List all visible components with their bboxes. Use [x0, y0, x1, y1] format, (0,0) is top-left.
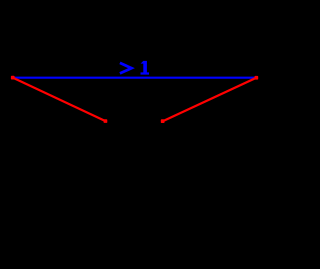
- label 1: [141, 61, 150, 75]
- node right top: [255, 76, 259, 80]
- node right bottom: [161, 119, 165, 123]
- wire red segment left: [13, 78, 106, 122]
- label > symbol: [120, 63, 132, 74]
- node left top: [11, 76, 15, 80]
- node left bottom: [104, 119, 108, 123]
- wire blue segment top: [13, 77, 257, 79]
- wire red segment right: [163, 78, 257, 122]
